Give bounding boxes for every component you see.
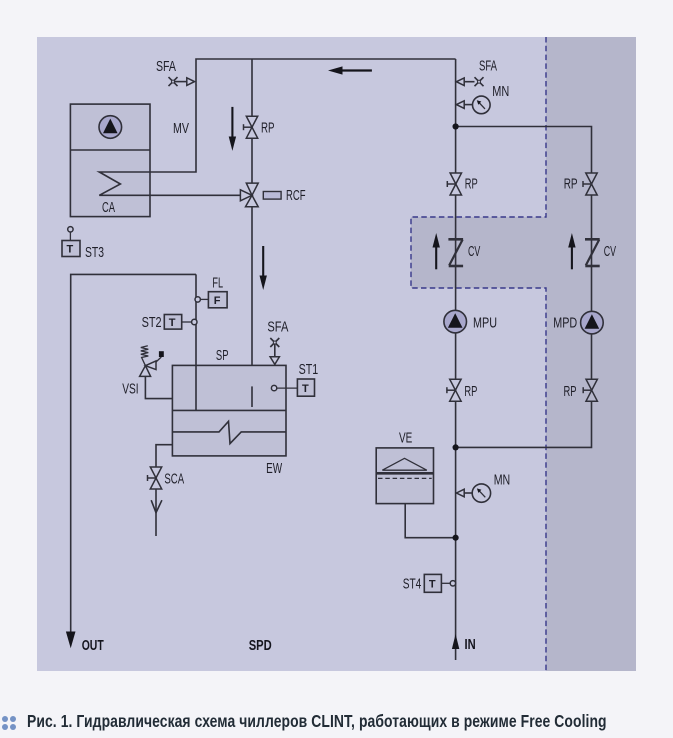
svg-text:MV: MV: [173, 121, 189, 137]
svg-text:CV: CV: [468, 244, 481, 260]
svg-text:OUT: OUT: [82, 638, 104, 654]
svg-text:FL: FL: [212, 276, 223, 292]
svg-text:MPD: MPD: [553, 316, 577, 332]
svg-text:T: T: [429, 579, 436, 591]
svg-text:RP: RP: [261, 120, 275, 136]
svg-text:VE: VE: [399, 430, 412, 446]
svg-text:RP: RP: [564, 384, 577, 400]
svg-text:MN: MN: [494, 473, 511, 489]
svg-text:T: T: [67, 244, 74, 256]
svg-text:SFA: SFA: [267, 319, 288, 335]
svg-text:RP: RP: [465, 176, 478, 192]
svg-text:SP: SP: [216, 348, 229, 364]
svg-text:SFA: SFA: [156, 59, 176, 75]
svg-text:RP: RP: [564, 176, 578, 192]
svg-text:SFA: SFA: [479, 58, 497, 74]
svg-text:MN: MN: [492, 84, 509, 100]
svg-text:RP: RP: [464, 384, 477, 400]
svg-text:T: T: [169, 317, 176, 329]
svg-text:F: F: [214, 295, 221, 307]
svg-text:ST4: ST4: [403, 577, 422, 593]
svg-text:MPU: MPU: [473, 316, 497, 332]
svg-text:ST1: ST1: [299, 362, 319, 378]
svg-text:ST2: ST2: [142, 315, 162, 331]
svg-text:CV: CV: [604, 244, 617, 260]
svg-text:SPD: SPD: [249, 638, 272, 654]
svg-text:T: T: [302, 383, 309, 395]
svg-text:IN: IN: [465, 637, 476, 653]
svg-text:SCA: SCA: [164, 472, 184, 488]
svg-text:RCF: RCF: [286, 188, 306, 204]
svg-text:ST3: ST3: [85, 245, 104, 261]
svg-text:EW: EW: [266, 461, 282, 477]
svg-text:VSI: VSI: [122, 382, 138, 398]
svg-text:CA: CA: [102, 200, 115, 216]
